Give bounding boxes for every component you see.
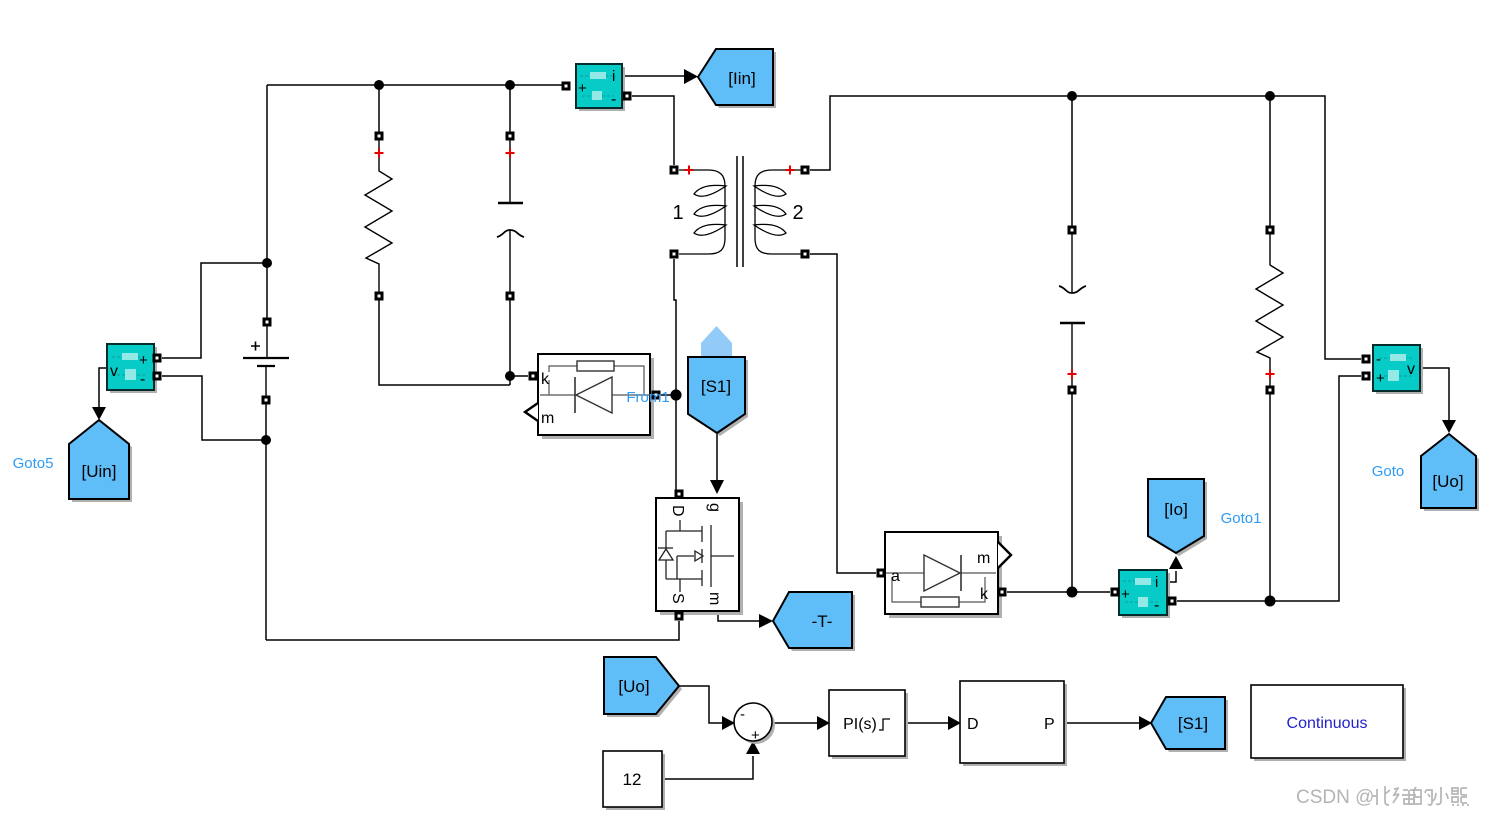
transformer T1 <box>679 156 801 267</box>
wire voltmeter U1 minus to battery bottom node <box>162 376 266 440</box>
svg-text:m: m <box>706 592 723 605</box>
port U1 - <box>153 372 162 381</box>
port CM2 - <box>1168 597 1177 606</box>
svg-text:k: k <box>980 586 989 603</box>
svg-text:Goto1: Goto1 <box>1221 510 1262 527</box>
arrowhead into Uin tag <box>92 407 106 420</box>
goto tag S1 shadow <box>1154 700 1228 752</box>
wire voltmeter U2 signal to Uo tag <box>1420 368 1449 422</box>
output diode D2 block <box>885 532 998 614</box>
wire battery bottom down <box>265 400 267 640</box>
arrowhead into Iin tag <box>684 69 698 84</box>
wire PI to subsystem <box>905 722 950 724</box>
current measurement CM2 Io <box>1119 570 1167 615</box>
resistor R1 input <box>365 136 392 296</box>
svg-text:i: i <box>1155 574 1158 591</box>
powergui block shadow <box>1254 688 1406 761</box>
voltmeter U1 shadow <box>110 347 157 393</box>
goto tag -T- shadow <box>776 595 855 651</box>
snubber diode D1 shadow <box>542 358 654 439</box>
wire constant 12 to sum <box>662 756 753 779</box>
port C1 top <box>506 132 515 141</box>
arrowhead into sum bottom <box>746 741 760 754</box>
wire top rail to output capacitor <box>1071 96 1073 226</box>
svg-text:m: m <box>541 410 554 427</box>
port D1 k <box>529 372 538 381</box>
polarity + C2 <box>1068 370 1077 379</box>
port U2 - <box>1362 355 1371 364</box>
junction node top rail resistor <box>1265 91 1275 101</box>
polarity + R1 <box>375 149 384 158</box>
junction node snubber anode restamp <box>671 390 682 401</box>
battery V1 DC source <box>243 322 289 400</box>
goto tag Uo shadow <box>1424 437 1479 511</box>
polarity + T1 secondary <box>786 166 795 175</box>
wire load resistor bottom down <box>1269 394 1271 601</box>
arrowhead into sum left <box>722 716 735 730</box>
PI controller block shadow <box>832 693 908 759</box>
svg-text:[Uo]: [Uo] <box>618 677 649 696</box>
powergui block Continuous <box>1251 685 1403 758</box>
port R2 bottom <box>1266 386 1275 395</box>
wire left vertical battery top <box>266 85 268 322</box>
svg-text:+: + <box>1121 586 1130 603</box>
wire sum to PI <box>772 722 819 724</box>
from tag S1 highlight pentagon <box>701 326 732 357</box>
output diode D2 shadow <box>889 536 1002 618</box>
goto tag Iin <box>698 49 773 105</box>
constant block 12 shadow <box>606 754 665 810</box>
wire MOSFET m to -T- tag <box>718 611 761 621</box>
from tag S1 <box>688 357 745 433</box>
junction node output minus rail <box>1265 596 1276 607</box>
port C1 bottom <box>506 292 515 301</box>
port D2 a <box>877 569 886 578</box>
goto tag Io shadow <box>1151 482 1207 556</box>
svg-text:PI(s): PI(s) <box>843 716 877 733</box>
sum block <box>734 703 772 744</box>
resistor R2 load <box>1256 230 1283 390</box>
port T1 primary - pin 1 <box>670 250 679 259</box>
polarity + T1 primary <box>685 166 694 175</box>
goto tag Uin <box>69 420 129 499</box>
wire subsystem to S1 goto <box>1064 722 1141 724</box>
port C2 top <box>1068 226 1077 235</box>
goto tag S1 bottom <box>1151 697 1225 749</box>
svg-text:12: 12 <box>623 770 642 789</box>
arrowhead into Uo tag <box>1442 420 1456 433</box>
arrowhead into MOSFET gate <box>710 480 724 494</box>
svg-text:From1: From1 <box>626 389 669 406</box>
port R2 top <box>1266 226 1275 235</box>
polarity + R2 <box>1266 370 1275 379</box>
port T1 secondary + pin 2 <box>801 166 810 175</box>
PWM subsystem shadow <box>963 684 1067 766</box>
from tag Uo shadow <box>607 660 682 717</box>
svg-text:-: - <box>1376 351 1381 368</box>
sum block shadow <box>737 706 775 744</box>
svg-text:Goto: Goto <box>1372 463 1405 480</box>
wire transformer primary bottom down <box>674 259 676 490</box>
svg-text:-T-: -T- <box>812 612 833 631</box>
port T1 primary + pin 1 <box>670 166 679 175</box>
snubber diode D1 block <box>538 354 650 435</box>
goto tag -T- <box>773 592 852 648</box>
wire snubber anode to node <box>661 394 676 396</box>
arrowhead into -T- tag <box>759 614 773 628</box>
wire Uo from tag to sum <box>677 686 724 723</box>
capacitor C2 output <box>1059 230 1086 390</box>
goto tag Uin shadow <box>72 423 132 502</box>
svg-text:[Uin]: [Uin] <box>82 462 117 481</box>
port U2 + <box>1362 372 1371 381</box>
PWM subsystem block <box>960 681 1064 763</box>
svg-text:S: S <box>669 593 686 604</box>
port CM1 - output <box>623 92 632 101</box>
watermark CSDN <box>1296 787 1374 808</box>
junction node rail-capacitor <box>505 80 515 90</box>
svg-text:2: 2 <box>792 202 803 224</box>
junction node snubber k <box>505 371 515 381</box>
svg-text:[Io]: [Io] <box>1164 500 1188 519</box>
svg-text:v: v <box>1407 361 1415 378</box>
svg-text:[S1]: [S1] <box>701 377 731 396</box>
constant block 12 <box>603 751 662 807</box>
WIRES_START <box>99 76 1449 779</box>
wire Iin signal to Iin tag <box>622 75 686 77</box>
port U1 + <box>153 354 162 363</box>
voltmeter U2 shadow <box>1376 348 1423 394</box>
svg-text:-: - <box>140 371 145 388</box>
svg-text:-: - <box>1154 597 1159 614</box>
voltmeter U2 <box>1373 345 1420 391</box>
MOSFET Q1 shadow <box>660 502 743 615</box>
port CM2 + <box>1111 588 1120 597</box>
current measurement CM1 Iin shadow <box>579 67 625 111</box>
red polarity marks <box>375 149 1275 379</box>
junction node k rail <box>1067 587 1078 598</box>
port C2 bottom <box>1068 386 1077 395</box>
port Q1 S <box>675 612 684 621</box>
wire node tap to voltmeter U1 plus <box>162 263 267 358</box>
from tag S1 shadow <box>691 360 748 436</box>
port D1 a <box>652 391 661 400</box>
port squares <box>153 82 1371 621</box>
port CM1 + input <box>562 82 571 91</box>
junction node snubber anode <box>671 390 682 401</box>
svg-text:[S1]: [S1] <box>1178 714 1208 733</box>
junction node battery voltmeter tap <box>262 258 272 268</box>
wire input resistor bottom <box>379 300 510 385</box>
arrowhead into PI <box>817 716 830 730</box>
goto tag Iin shadow <box>701 52 776 108</box>
port R1 bottom <box>375 292 384 301</box>
output diode D2 m chevron <box>998 542 1011 568</box>
polarity + C1 <box>506 149 515 158</box>
wire rail to input capacitor <box>509 85 511 132</box>
arrowhead into S1 goto <box>1139 716 1152 730</box>
svg-text:Goto5: Goto5 <box>13 455 54 472</box>
MOSFET Q1 block <box>656 498 739 611</box>
svg-text:-: - <box>611 91 616 108</box>
voltmeter U1 <box>107 344 154 390</box>
svg-text:+: + <box>751 727 760 744</box>
port T1 secondary - pin 2 <box>801 250 810 259</box>
arrowhead into Io tag <box>1169 556 1183 569</box>
svg-text:+: + <box>1376 370 1385 387</box>
wire cap node to snubber k <box>510 375 528 377</box>
capacitor C1 input <box>497 136 524 296</box>
goto tag Uo <box>1421 434 1476 508</box>
wire voltmeter U1 signal to Uin tag <box>99 368 107 410</box>
svg-text:[Uo]: [Uo] <box>1432 472 1463 491</box>
wire input capacitor bottom <box>509 300 511 385</box>
wire diode k to Io plus <box>1007 591 1110 593</box>
wire top rail to load resistor <box>1269 96 1271 226</box>
svg-text:D: D <box>967 716 979 733</box>
wire S1 from tag to gate <box>716 433 718 482</box>
wire output capacitor bottom to k rail <box>1071 394 1073 592</box>
port R1 top <box>375 132 384 141</box>
arrowhead into subsystem <box>948 716 961 730</box>
junction node top rail capacitor <box>1067 91 1077 101</box>
wire Io signal to Io tag <box>1167 571 1176 582</box>
svg-text:k: k <box>541 371 550 388</box>
snubber diode D1 m chevron <box>525 403 538 421</box>
svg-text:[Iin]: [Iin] <box>728 69 755 88</box>
from tag Uo <box>604 657 679 714</box>
svg-text:D: D <box>669 505 686 517</box>
port D2 k <box>998 588 1007 597</box>
svg-text:CSDN @: CSDN @ <box>1296 787 1374 808</box>
svg-text:P: P <box>1044 716 1055 733</box>
watermark CJK glyphs <box>1372 786 1469 805</box>
svg-text:v: v <box>110 363 118 380</box>
current measurement CM1 Iin <box>576 64 622 108</box>
svg-text:-: - <box>740 706 745 723</box>
svg-text:+: + <box>578 80 587 97</box>
svg-text:g: g <box>706 503 723 512</box>
port V1 + <box>263 318 272 327</box>
wire top-left rail from battery to Iin + <box>267 84 566 86</box>
junction node battery minus <box>261 435 271 445</box>
svg-text:m: m <box>977 550 990 567</box>
svg-text:Continuous: Continuous <box>1287 715 1368 732</box>
svg-text:i: i <box>612 68 615 85</box>
svg-text:1: 1 <box>672 202 683 224</box>
PI controller block <box>829 690 905 756</box>
wire Iin minus to transformer primary plus <box>632 96 674 165</box>
svg-text:+: + <box>139 352 148 369</box>
svg-text:a: a <box>891 568 900 585</box>
wire Io minus to voltmeter U2 plus <box>1177 376 1361 601</box>
wire transformer secondary plus to top rail <box>810 96 1361 359</box>
port V1 - <box>262 396 271 405</box>
transformer winding labels <box>672 202 803 224</box>
goto tag Io <box>1148 479 1204 553</box>
wire bottom rail to MOSFET source <box>266 621 679 640</box>
wire transformer secondary bottom to diode anode <box>810 254 876 573</box>
current measurement CM2 Io shadow <box>1122 573 1170 618</box>
port Q1 D <box>675 490 684 499</box>
junction node rail-resistor <box>374 80 384 90</box>
wire rail to input resistor <box>378 85 380 132</box>
